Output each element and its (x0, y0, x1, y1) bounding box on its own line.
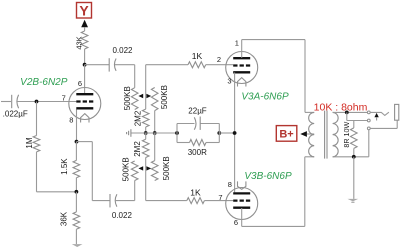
wire primary top (305, 111, 314, 113)
wire plate lead V2B (84, 65, 86, 94)
resistor R 1M (25, 102, 40, 192)
pin 6b (234, 218, 238, 227)
jack body (395, 104, 399, 120)
transformer primary (309, 112, 315, 156)
pin 7 (62, 94, 66, 103)
svg-text:2M2: 2M2 (133, 110, 142, 126)
resistor 2M2 lower (133, 133, 149, 158)
wire plate V3B (242, 157, 315, 227)
wire cathode V2B (76, 110, 78, 142)
arrow to Y (81, 20, 88, 31)
label V3B-6N6P (244, 171, 292, 182)
wire 1M to cathode node (37, 191, 77, 193)
svg-text:36K: 36K (59, 211, 68, 226)
svg-text:6: 6 (78, 79, 82, 88)
ground transformer (348, 157, 359, 203)
ground mid (127, 129, 177, 137)
resistor R 1.5K (60, 142, 80, 192)
capacitor C1 0.022 (109, 46, 133, 72)
svg-text:0.022: 0.022 (112, 211, 133, 220)
svg-text:B+: B+ (279, 129, 293, 141)
jack switch arrow (374, 113, 378, 121)
pin 2 (217, 55, 221, 64)
pin 3 (227, 77, 231, 86)
wire cathode out (77, 142, 110, 201)
jack terminal 1 (367, 111, 370, 114)
tube V3A (226, 52, 258, 87)
svg-text:1.5K: 1.5K (60, 158, 69, 175)
transformer core (325, 111, 327, 159)
label V3A-6N6P (241, 91, 289, 102)
node sec top (345, 111, 349, 115)
capacitor C2 0.022 (110, 194, 132, 220)
resistor 8R 10W (342, 121, 357, 157)
resistor R 43K (74, 31, 88, 65)
wire cathode V3A (234, 73, 236, 193)
svg-text:8R 10W: 8R 10W (342, 122, 351, 148)
wire tap to 8R (347, 112, 368, 120)
svg-text:.022µF: .022µF (3, 110, 28, 119)
node cathode rail (233, 131, 237, 135)
node 2M2 (144, 131, 148, 135)
resistor R 36K (59, 192, 79, 244)
svg-text:500KB: 500KB (160, 85, 169, 109)
svg-text:3: 3 (227, 77, 231, 86)
port Y (77, 3, 92, 19)
jack tip contact (370, 112, 389, 115)
svg-text:8: 8 (69, 116, 73, 125)
capacitor C-in .022uF (3, 95, 37, 119)
pin 8 (69, 116, 73, 125)
jack terminal 2 (367, 119, 370, 122)
svg-text:500KB: 500KB (122, 157, 131, 181)
svg-text:V2B-6N2P: V2B-6N2P (20, 77, 68, 88)
pot 500KB upper-right (151, 85, 169, 133)
svg-text:300R: 300R (188, 148, 207, 157)
svg-text:1M: 1M (25, 137, 34, 148)
node right pots (153, 131, 157, 135)
wire input rail (1, 101, 11, 103)
svg-text:8: 8 (228, 180, 232, 189)
node bias junction (75, 190, 79, 194)
tube V3B (226, 181, 258, 219)
arrow B+ tap (300, 131, 314, 137)
svg-text:2: 2 (217, 55, 221, 64)
svg-text:10K : 8ohm: 10K : 8ohm (314, 102, 368, 114)
resistor R1K top (146, 51, 234, 67)
wire sleeve up (368, 130, 370, 157)
node sec bottom (352, 155, 356, 159)
wire RC to cathodes (219, 132, 234, 134)
wire plate rail (85, 64, 110, 66)
wire plate V3A (242, 40, 305, 113)
svg-text:6: 6 (234, 218, 238, 227)
pin 6 (78, 79, 82, 88)
tube V2B (69, 88, 101, 123)
jack sleeve wire (370, 120, 397, 128)
pot 500KB lower-right (151, 133, 171, 181)
pot 500KB upper-left (123, 86, 138, 110)
resistor 2M2 upper (133, 109, 149, 133)
svg-text:1: 1 (235, 38, 239, 47)
node RC right (217, 131, 221, 135)
svg-text:43K: 43K (74, 36, 83, 49)
label 10K 8ohm (314, 102, 368, 114)
wire cap1 to pot (115, 65, 135, 88)
node plate V2B (83, 63, 87, 67)
jack terminal 3 (367, 127, 370, 130)
svg-text:2M2: 2M2 (133, 141, 142, 157)
transformer secondary (333, 112, 339, 156)
wire secondary top (333, 111, 368, 113)
port B+ (276, 126, 297, 142)
node input junction (35, 100, 39, 104)
svg-text:500KB: 500KB (123, 86, 132, 110)
pin 7b (218, 193, 222, 202)
resistor R1K bottom (146, 187, 234, 203)
svg-text:Y: Y (79, 3, 89, 19)
wire cap2 to pot (116, 181, 135, 201)
label V2B-6N2P (20, 77, 68, 88)
svg-text:V3B-6N6P: V3B-6N6P (244, 171, 292, 182)
resistor 300R (177, 140, 219, 158)
svg-text:1K: 1K (192, 51, 203, 61)
svg-text:0.022: 0.022 (112, 46, 133, 55)
wire secondary bottom (333, 156, 369, 158)
pot 500KB lower-left (122, 157, 138, 181)
wire grid V2B (37, 101, 77, 103)
ground 36K (72, 244, 83, 247)
wiper arrows lower (138, 158, 151, 201)
svg-text:7: 7 (218, 193, 222, 202)
svg-text:7: 7 (62, 94, 66, 103)
wiper arrows upper (138, 65, 151, 109)
pin 1 (235, 38, 239, 47)
pin 8b (228, 180, 232, 189)
node RC left (175, 131, 179, 135)
node cathode V2B (75, 140, 79, 144)
svg-text:1K: 1K (190, 187, 201, 197)
svg-text:V3A-6N6P: V3A-6N6P (241, 91, 289, 102)
svg-text:22µF: 22µF (188, 107, 207, 116)
capacitor 22uF (177, 107, 219, 143)
svg-text:500KB: 500KB (162, 156, 171, 180)
